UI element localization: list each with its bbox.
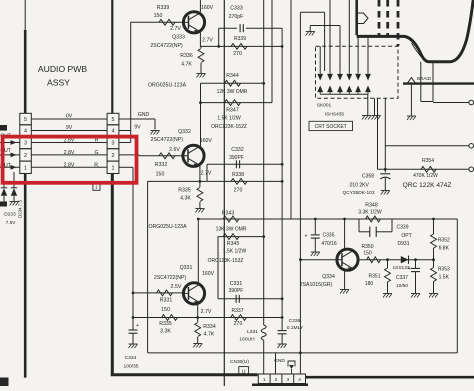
wire to D234 (13, 172, 15, 188)
wire feedback bottom (148, 352, 458, 354)
wire C332 (207, 163, 282, 165)
resistor R345 1.5K (223, 234, 239, 240)
connector CN left column (20, 113, 32, 173)
svg-text:C336: C336 (289, 318, 301, 324)
label 9V right (119, 130, 131, 132)
svg-text:2: 2 (112, 153, 115, 159)
wire GND 0V (119, 118, 155, 120)
resistor R338 270 (231, 179, 247, 185)
capacitor C331 390PF (235, 295, 237, 303)
wire Q334 emitter (344, 270, 346, 289)
wire 2.8V R row (31, 142, 107, 144)
resistor R337 270 (231, 315, 247, 321)
wire base Q332 (119, 154, 139, 156)
node pin1 marker box (93, 183, 100, 190)
svg-text:160UH: 160UH (239, 337, 255, 343)
svg-text:D931: D931 (398, 241, 410, 247)
svg-text:12K 3W OMR: 12K 3W OMR (217, 89, 248, 95)
svg-text:2.7V: 2.7V (201, 309, 212, 315)
wire feed y12 (300, 11, 324, 13)
resistor R336 4.7K (200, 46, 202, 48)
svg-text:R352: R352 (438, 238, 450, 244)
wire emitter rail Q331 (133, 317, 282, 319)
wire braid rect (420, 62, 422, 102)
black mark left edge (0, 125, 7, 131)
svg-text:5: 5 (24, 117, 27, 123)
transistor Q331 2SC4722 (183, 283, 204, 304)
wire braid thick (403, 82, 474, 84)
svg-text:4: 4 (24, 129, 27, 135)
transistor Q332 2SC4722 (183, 145, 204, 166)
svg-text:470K 1/2W: 470K 1/2W (413, 173, 438, 179)
wire 2.8V G row (31, 154, 107, 156)
wire R350 rail (358, 259, 434, 261)
svg-text:1.5K 1/2W: 1.5K 1/2W (223, 249, 247, 255)
svg-text:150: 150 (156, 171, 165, 177)
capacitor C332 390PF (235, 160, 237, 168)
svg-text:2.7V: 2.7V (201, 171, 212, 177)
resistor R352 6.8K (433, 219, 435, 234)
capacitor C358 .010 2KV (384, 169, 386, 172)
wire R347 (201, 102, 273, 104)
resistor R344 12K 3W (225, 80, 241, 86)
svg-text:ASSY: ASSY (47, 78, 70, 88)
svg-text:CRT SOCKET: CRT SOCKET (315, 124, 347, 130)
wire audio cable line left (thin top) (24, 0, 26, 30)
wire socket baseline (320, 93, 368, 95)
wire collector Q331 (197, 219, 199, 283)
socket pin arrows up (317, 86, 323, 93)
svg-text:BRAID: BRAID (417, 76, 432, 81)
wire focus line (384, 98, 386, 169)
svg-text:6.8K: 6.8K (439, 246, 450, 252)
resistor R350 150 (367, 257, 381, 263)
crt inner arc (412, 43, 422, 57)
wire audio cable line left (thick bottom) (24, 174, 27, 378)
ground socket 2 (372, 115, 381, 117)
wire C333 stub (218, 28, 220, 46)
svg-text:9V: 9V (134, 124, 141, 130)
label CRT SOCKET box (309, 121, 353, 130)
wire R345 (218, 236, 264, 238)
svg-text:270: 270 (234, 321, 243, 327)
capacitor C339 OPT (358, 219, 360, 232)
ground R351 (383, 293, 392, 295)
svg-text:L331: L331 (247, 329, 258, 335)
svg-text:2SC4722(NP): 2SC4722(NP) (150, 43, 183, 49)
svg-text:4.7K: 4.7K (181, 62, 192, 68)
annotation red highlight box (3, 137, 137, 183)
capacitor C336 0.1MLY (278, 330, 287, 332)
svg-text:R350: R350 (362, 244, 374, 250)
svg-text:150: 150 (363, 251, 372, 257)
svg-text:C335: C335 (323, 233, 335, 239)
resistor R353 1.5K (433, 260, 435, 268)
svg-text:R336: R336 (180, 53, 193, 59)
ground socket 1 (362, 115, 371, 117)
svg-text:160V: 160V (200, 138, 213, 144)
wire base bus Q331 (119, 166, 133, 168)
chassis triangle (407, 78, 415, 84)
svg-text:+: + (305, 234, 308, 240)
crt neck dashed lines (378, 0, 381, 36)
svg-text:3: 3 (112, 141, 115, 147)
ground braid (407, 115, 416, 117)
svg-text:QCY35DK-103: QCY35DK-103 (343, 190, 375, 196)
svg-text:150: 150 (161, 307, 170, 313)
crt socket dashed box (316, 46, 399, 98)
wire bus x282 top (281, 28, 283, 330)
svg-text:SK001: SK001 (317, 102, 332, 108)
resistor R334 4.7K (197, 318, 199, 323)
resistor R339b 270 (231, 44, 247, 50)
svg-text:R353: R353 (438, 267, 450, 273)
ground C336 (278, 343, 287, 345)
wire thick bottom right (306, 376, 474, 379)
svg-text:AUDIO PWB: AUDIO PWB (38, 64, 87, 74)
svg-text:R339: R339 (157, 5, 170, 11)
wire R344 (201, 82, 264, 84)
wire pin3 gnd jumper (288, 361, 295, 367)
ground C337 (411, 293, 420, 295)
svg-text:C358: C358 (362, 174, 374, 180)
svg-text:2: 2 (275, 377, 278, 382)
wire Q334 base (300, 259, 337, 261)
wire feed y25 (310, 25, 340, 27)
svg-text:C334: C334 (125, 355, 137, 361)
resistor R339 150 (159, 19, 175, 25)
svg-text:GND: GND (138, 112, 150, 118)
wire audio board edge bottom (111, 174, 114, 375)
svg-text:9V: 9V (66, 125, 73, 131)
resistor R332 150 (159, 153, 175, 159)
svg-text:13K 3W OMR: 13K 3W OMR (216, 227, 247, 233)
svg-text:4.3K: 4.3K (180, 196, 191, 202)
ground C334 (129, 343, 138, 345)
diode D233 (1, 187, 7, 189)
svg-text:4.7K: 4.7K (204, 332, 215, 338)
svg-text:1.5K 1/2W: 1.5K 1/2W (217, 116, 241, 122)
svg-text:2SC4722(NP): 2SC4722(NP) (154, 275, 187, 281)
black mark bottom left (0, 378, 9, 387)
svg-text:2.5V: 2.5V (171, 284, 182, 290)
wire rail y219 (198, 218, 457, 220)
wire base Q331 (133, 292, 184, 294)
crt funnel outline (357, 0, 474, 62)
diode D931 1SS133 (401, 256, 409, 263)
svg-text:2SC4722(NP): 2SC4722(NP) (151, 137, 184, 143)
svg-text:Q331: Q331 (180, 265, 193, 271)
svg-text:160V: 160V (201, 5, 214, 11)
svg-text:3: 3 (286, 377, 289, 382)
svg-text:0.1MLY: 0.1MLY (287, 325, 304, 331)
svg-text:D234 7.5: D234 7.5 (18, 200, 23, 218)
svg-text:+: + (136, 323, 139, 329)
wire pin2 (275, 353, 277, 374)
wire bus x272 (271, 0, 273, 103)
ground D234 (10, 201, 19, 203)
transistor Q334 2SA1015 (337, 249, 358, 270)
resistor R354 470K (421, 166, 436, 172)
wire bus x300 (299, 12, 301, 374)
wire emitter Q333 (199, 32, 201, 47)
svg-text:R334: R334 (203, 324, 216, 330)
wire C331 (218, 298, 282, 300)
svg-text:1: 1 (112, 165, 115, 171)
resistor R335a 4.3K (199, 181, 201, 187)
svg-text:2.8V: 2.8V (64, 162, 75, 168)
svg-text:2.7V: 2.7V (202, 38, 213, 44)
svg-text:OPT: OPT (401, 233, 411, 239)
svg-text:390PF: 390PF (229, 155, 244, 161)
capacitor C337 10/50 (415, 260, 417, 268)
ground C358 (381, 190, 390, 192)
svg-text:R335: R335 (178, 188, 191, 194)
svg-text:ORC123K-153Z: ORC123K-153Z (208, 258, 244, 264)
svg-text:270pF: 270pF (229, 14, 244, 20)
resistor R347 1.5K (225, 100, 241, 106)
socket pin arrows down (317, 74, 323, 81)
wire feedback right (456, 219, 458, 353)
wire socket gnd stubs (367, 94, 369, 115)
svg-text:1: 1 (95, 185, 98, 190)
svg-text:R331: R331 (160, 298, 173, 304)
svg-text:CN30(U): CN30(U) (230, 359, 249, 365)
svg-text:10/50: 10/50 (396, 283, 408, 289)
svg-text:ISHS435: ISHS435 (325, 111, 345, 117)
capacitor C333 270pF (239, 24, 241, 32)
svg-text:150: 150 (154, 13, 163, 19)
svg-text:R.: R. (94, 162, 99, 168)
svg-text:3.3K 1/2W: 3.3K 1/2W (358, 210, 382, 216)
wire 0V row (31, 118, 107, 120)
wire L331 to pin1 (263, 340, 265, 374)
wire bus x263 (263, 0, 265, 325)
wire to D233 (3, 172, 5, 188)
svg-text:3.3K: 3.3K (160, 329, 171, 335)
capacitor C335 470/16 (314, 219, 316, 234)
resistor R351 180 (387, 260, 389, 268)
svg-text:Q334: Q334 (322, 274, 335, 280)
svg-text:100/35: 100/35 (124, 364, 139, 370)
svg-text:2.7V: 2.7V (170, 26, 181, 32)
yoke connector thick (355, 0, 358, 35)
wire R354 (377, 98, 379, 169)
wire emitter Q332 (199, 166, 201, 182)
wire feedback left (147, 181, 149, 353)
svg-text:3: 3 (24, 141, 27, 147)
wire emitter Q331 (197, 304, 199, 318)
ground C335 (311, 251, 320, 253)
resistor R335b 3.3K (162, 315, 178, 321)
svg-text:2.8V: 2.8V (64, 150, 75, 156)
wire Q334 collector (344, 219, 346, 249)
transistor Q333 2SC4722 (183, 12, 204, 33)
svg-text:Q332: Q332 (178, 129, 191, 135)
svg-text:C337: C337 (396, 275, 408, 281)
connector CN30 bottom (258, 374, 305, 384)
wire base bus Q333 (130, 22, 132, 142)
svg-text:2: 2 (24, 153, 27, 159)
ground R335a (195, 208, 204, 210)
ground 0V (151, 130, 160, 132)
wire 9V row (31, 130, 107, 132)
svg-text:470/16: 470/16 (321, 241, 337, 247)
svg-text:R335: R335 (159, 321, 172, 327)
wire braid gnd (410, 84, 412, 116)
wire braid terminal (433, 102, 469, 104)
svg-text:0V: 0V (66, 114, 73, 120)
wire collector bus Q332 (200, 83, 202, 146)
svg-text:5: 5 (112, 117, 115, 123)
ground R336 (197, 73, 206, 75)
capacitor C334 100/35 (132, 328, 134, 330)
resistor R343 13K 3W (223, 216, 239, 222)
svg-text:1.5K: 1.5K (439, 275, 450, 281)
svg-text:R343: R343 (222, 210, 235, 216)
ground R353 (429, 293, 438, 295)
svg-text:ORC123K-152Z: ORC123K-152Z (211, 124, 247, 130)
svg-text:R337: R337 (232, 308, 244, 314)
svg-text:4: 4 (112, 129, 115, 135)
wire main pwb border (223, 0, 225, 386)
ground Q334 (340, 289, 349, 291)
svg-text:Q333: Q333 (172, 35, 185, 41)
resistor R331 150 (157, 290, 173, 296)
svg-text:2SA1015(GR): 2SA1015(GR) (300, 282, 333, 288)
wire base Q333 (131, 21, 184, 23)
svg-text:U: U (242, 369, 246, 375)
resistor R348 3.3K (366, 216, 381, 222)
svg-text:R347: R347 (226, 108, 239, 114)
svg-text:R351: R351 (369, 274, 381, 280)
svg-text:7.5V: 7.5V (6, 220, 17, 226)
wire thick bottom bar (252, 383, 308, 386)
svg-text:1: 1 (24, 165, 27, 171)
svg-text:C339: C339 (397, 224, 409, 230)
ground R334 (193, 343, 202, 345)
svg-text:GND: GND (274, 358, 285, 364)
svg-text:+: + (408, 266, 411, 272)
svg-text:R344: R344 (226, 73, 239, 79)
svg-text:R345: R345 (227, 241, 240, 247)
svg-text:180: 180 (365, 281, 374, 287)
svg-text:R338: R338 (232, 172, 244, 178)
svg-text:2.6V: 2.6V (169, 147, 180, 153)
wire socket pins (324, 12, 326, 71)
svg-text:ORG025U-123A: ORG025U-123A (148, 224, 187, 230)
connector CN right column (107, 113, 119, 173)
svg-text:D233: D233 (4, 212, 16, 218)
svg-text:160V: 160V (202, 271, 215, 277)
wire 2.8V B row (31, 166, 107, 168)
wire emitter rail Q332 (148, 180, 283, 182)
svg-text:R339: R339 (234, 36, 246, 42)
svg-text:C331: C331 (230, 281, 243, 287)
inductor L331 160UH (261, 325, 266, 340)
wire bus x291 (290, 0, 292, 219)
svg-text:.010 2KV: .010 2KV (348, 183, 369, 189)
svg-text:270: 270 (234, 188, 243, 194)
svg-text:QRC 122K 474Z: QRC 122K 474Z (403, 182, 452, 189)
wire audio cable line 2 (111, 0, 113, 113)
wire collector Q333 (199, 0, 201, 12)
svg-text:1: 1 (263, 377, 266, 382)
svg-text:R348: R348 (365, 203, 378, 209)
svg-text:C333: C333 (230, 6, 243, 12)
svg-text:4: 4 (298, 377, 301, 382)
wire R344n (201, 45, 282, 47)
svg-text:R332: R332 (155, 162, 168, 168)
svg-text:C332: C332 (231, 147, 244, 153)
svg-text:270: 270 (233, 51, 242, 57)
svg-text:G: G (94, 150, 98, 156)
wire C333 (219, 27, 237, 29)
svg-text:ORG025U-123A: ORG025U-123A (148, 83, 187, 89)
svg-text:390PF: 390PF (229, 288, 244, 294)
ground feed (306, 31, 315, 33)
svg-text:R354: R354 (422, 158, 434, 164)
diode D234 (11, 187, 17, 189)
